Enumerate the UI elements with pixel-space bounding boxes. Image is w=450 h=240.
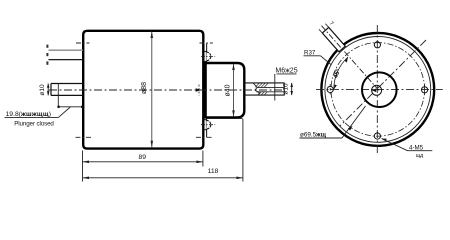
plunger stroke position line: [57, 84, 59, 96]
inner rim circle: [325, 37, 431, 143]
terminal tab: [322, 27, 345, 51]
dimension 19.8: [57, 96, 59, 108]
M6 tapped hole lines: [257, 87, 285, 89]
dimension phi40: [233, 64, 235, 116]
45 degree dimension arc: [334, 57, 348, 89]
horizontal center line: [316, 88, 443, 90]
section arrow mark near right edge: [196, 88, 202, 92]
svg-text:ø40: ø40: [224, 84, 231, 96]
section break zigzag: [253, 83, 260, 95]
tab width extension ticks: [319, 29, 322, 33]
front flange plate edge: [206, 43, 208, 137]
diagonal center line: [340, 40, 426, 126]
svg-text:ø10: ø10: [39, 84, 46, 96]
flange bottom edge line: [207, 117, 243, 119]
dimension phi88: [151, 32, 153, 148]
outer circle: [321, 33, 434, 146]
leader to plunger-closed note: [59, 107, 71, 117]
lead wire 2: [49, 59, 84, 61]
bolt circle (dash-dot): [331, 43, 425, 137]
svg-text:89: 89: [139, 154, 147, 161]
svg-text:ø88: ø88: [141, 82, 148, 94]
lead wire 1 (gray): [49, 49, 84, 51]
dimension 89: [82, 151, 84, 167]
shaft outline: [244, 83, 284, 95]
M5 hole bottom: [374, 133, 380, 139]
dimension phi10 shaft: [291, 83, 293, 95]
arrow at center: [372, 89, 377, 93]
dimension 118: [82, 167, 84, 182]
main horizontal center line: [49, 89, 284, 91]
M5 hole right: [422, 87, 428, 93]
vertical center line: [376, 25, 378, 154]
mounting hole center line top: [76, 42, 90, 44]
svg-text:ø10: ø10: [283, 83, 290, 95]
wire end ticks: [46, 45, 48, 48]
M5 hole top: [374, 42, 380, 48]
tab center line: [322, 26, 380, 91]
mounting hole center line bottom: [76, 136, 94, 138]
mounting stud bottom: [201, 120, 215, 130]
M5 hole left: [327, 86, 333, 92]
cylinder boss (phi40): [206, 63, 245, 117]
svg-text:118: 118: [208, 168, 219, 175]
svg-text:Plunger closed: Plunger closed: [14, 121, 54, 128]
hatching bottom band: [258, 92, 267, 95]
central boss circle: [362, 72, 397, 107]
plunger: [51, 84, 83, 96]
svg-text:19.8(жшжщщ): 19.8(жшжщщ): [6, 111, 52, 118]
shaft hole circle: [372, 85, 382, 95]
svg-text:щд: щд: [416, 153, 423, 159]
hatching top band: [255, 83, 268, 87]
solenoid body (side view): [83, 31, 203, 149]
dimension phi10 plunger: [47, 84, 49, 96]
mounting stud top: [201, 51, 215, 61]
